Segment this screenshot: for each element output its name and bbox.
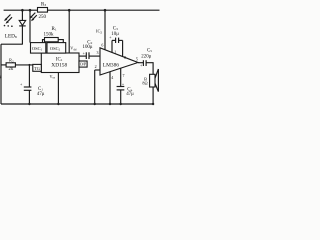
svg-text:R2: R2	[9, 58, 14, 64]
capacitor C1	[20, 64, 45, 104]
svg-text:+: +	[83, 50, 86, 55]
svg-text:150k: 150k	[44, 32, 55, 37]
op-amp IC2 LM386	[96, 29, 138, 76]
svg-text:IC2: IC2	[96, 29, 102, 35]
svg-text:10μ: 10μ	[111, 32, 119, 37]
pin 2 wire to ground	[95, 64, 100, 104]
light arrows right pair	[29, 13, 36, 22]
node junction LM386 pin6	[104, 9, 107, 12]
svg-text:220μ: 220μ	[141, 54, 151, 59]
svg-text:47μ: 47μ	[126, 92, 134, 97]
svg-text:LM386: LM386	[103, 62, 119, 68]
svg-text:R3: R3	[41, 2, 46, 7]
junction dots bottom rail	[28, 103, 154, 105]
pin box OSC2	[47, 43, 66, 54]
svg-text:4: 4	[111, 75, 113, 80]
dots ellipsis more LEDs	[4, 25, 13, 27]
wire LED cathode to left rail	[1, 43, 23, 45]
wire C5 to speaker	[146, 63, 153, 75]
svg-text:XD158: XD158	[51, 63, 67, 69]
wire bottom ground rail	[1, 103, 154, 105]
svg-text:8: 8	[124, 55, 126, 60]
wire Vdd from rail	[69, 10, 77, 53]
svg-text:LEDn: LEDn	[5, 33, 17, 39]
svg-text:Vdd: Vdd	[70, 46, 77, 52]
capacitor C5	[140, 48, 152, 67]
wire O/P to C2	[79, 55, 86, 57]
speaker B	[142, 69, 158, 104]
wire left rail	[0, 44, 2, 104]
resistor R2	[1, 58, 15, 73]
wire C2 to pin3	[89, 55, 100, 57]
resistor R3	[38, 2, 48, 20]
svg-text:8Ω: 8Ω	[142, 81, 147, 86]
capacitor C2	[83, 40, 93, 59]
svg-text:3: 3	[97, 50, 99, 55]
node junction LED anode	[21, 9, 24, 12]
wire top supply rail	[4, 9, 160, 11]
svg-text:C5: C5	[147, 48, 152, 53]
capacitor C4	[117, 82, 134, 104]
svg-text:7: 7	[123, 73, 125, 78]
pin 4 wire to ground	[110, 72, 113, 104]
svg-text:μ: μ	[0, 74, 3, 79]
svg-text:6: 6	[101, 43, 103, 48]
IC1 XD158 box	[41, 53, 79, 73]
svg-text:250: 250	[39, 15, 47, 20]
svg-text:1: 1	[114, 49, 116, 54]
svg-text:OSC1: OSC1	[32, 46, 43, 52]
pin box OSC1	[31, 43, 46, 54]
light arrows left pair	[4, 15, 12, 24]
svg-text:+: +	[20, 82, 23, 87]
pin box TG	[33, 64, 42, 71]
node junction OSC1 feed	[29, 9, 32, 12]
capacitor C3 pins 1-8	[109, 26, 126, 60]
pin 5 output wire	[136, 56, 143, 62]
svg-text:2k: 2k	[9, 67, 14, 72]
svg-text:47μ: 47μ	[37, 92, 45, 97]
svg-text:TG: TG	[34, 66, 40, 71]
pin 7 wire	[121, 68, 125, 86]
wire OSC1 feed from rail	[29, 10, 31, 42]
node junction Vdd	[68, 9, 71, 12]
pin box O/P	[79, 61, 87, 67]
svg-text:O/P: O/P	[80, 62, 87, 67]
LED LEDn photodiode	[5, 10, 26, 44]
svg-text:OSC2: OSC2	[50, 46, 61, 52]
wire R2 to TG pin	[15, 64, 34, 66]
resistor R1	[43, 27, 64, 43]
svg-text:5: 5	[136, 56, 138, 61]
svg-text:Vss: Vss	[50, 74, 56, 80]
svg-text:+: +	[140, 63, 143, 68]
svg-text:100μ: 100μ	[83, 45, 93, 50]
svg-text:R1: R1	[52, 27, 57, 32]
pin 6 wire	[101, 10, 105, 50]
svg-text:C3: C3	[113, 26, 118, 31]
pin Vss wire	[50, 73, 59, 105]
svg-text:2: 2	[95, 64, 97, 69]
